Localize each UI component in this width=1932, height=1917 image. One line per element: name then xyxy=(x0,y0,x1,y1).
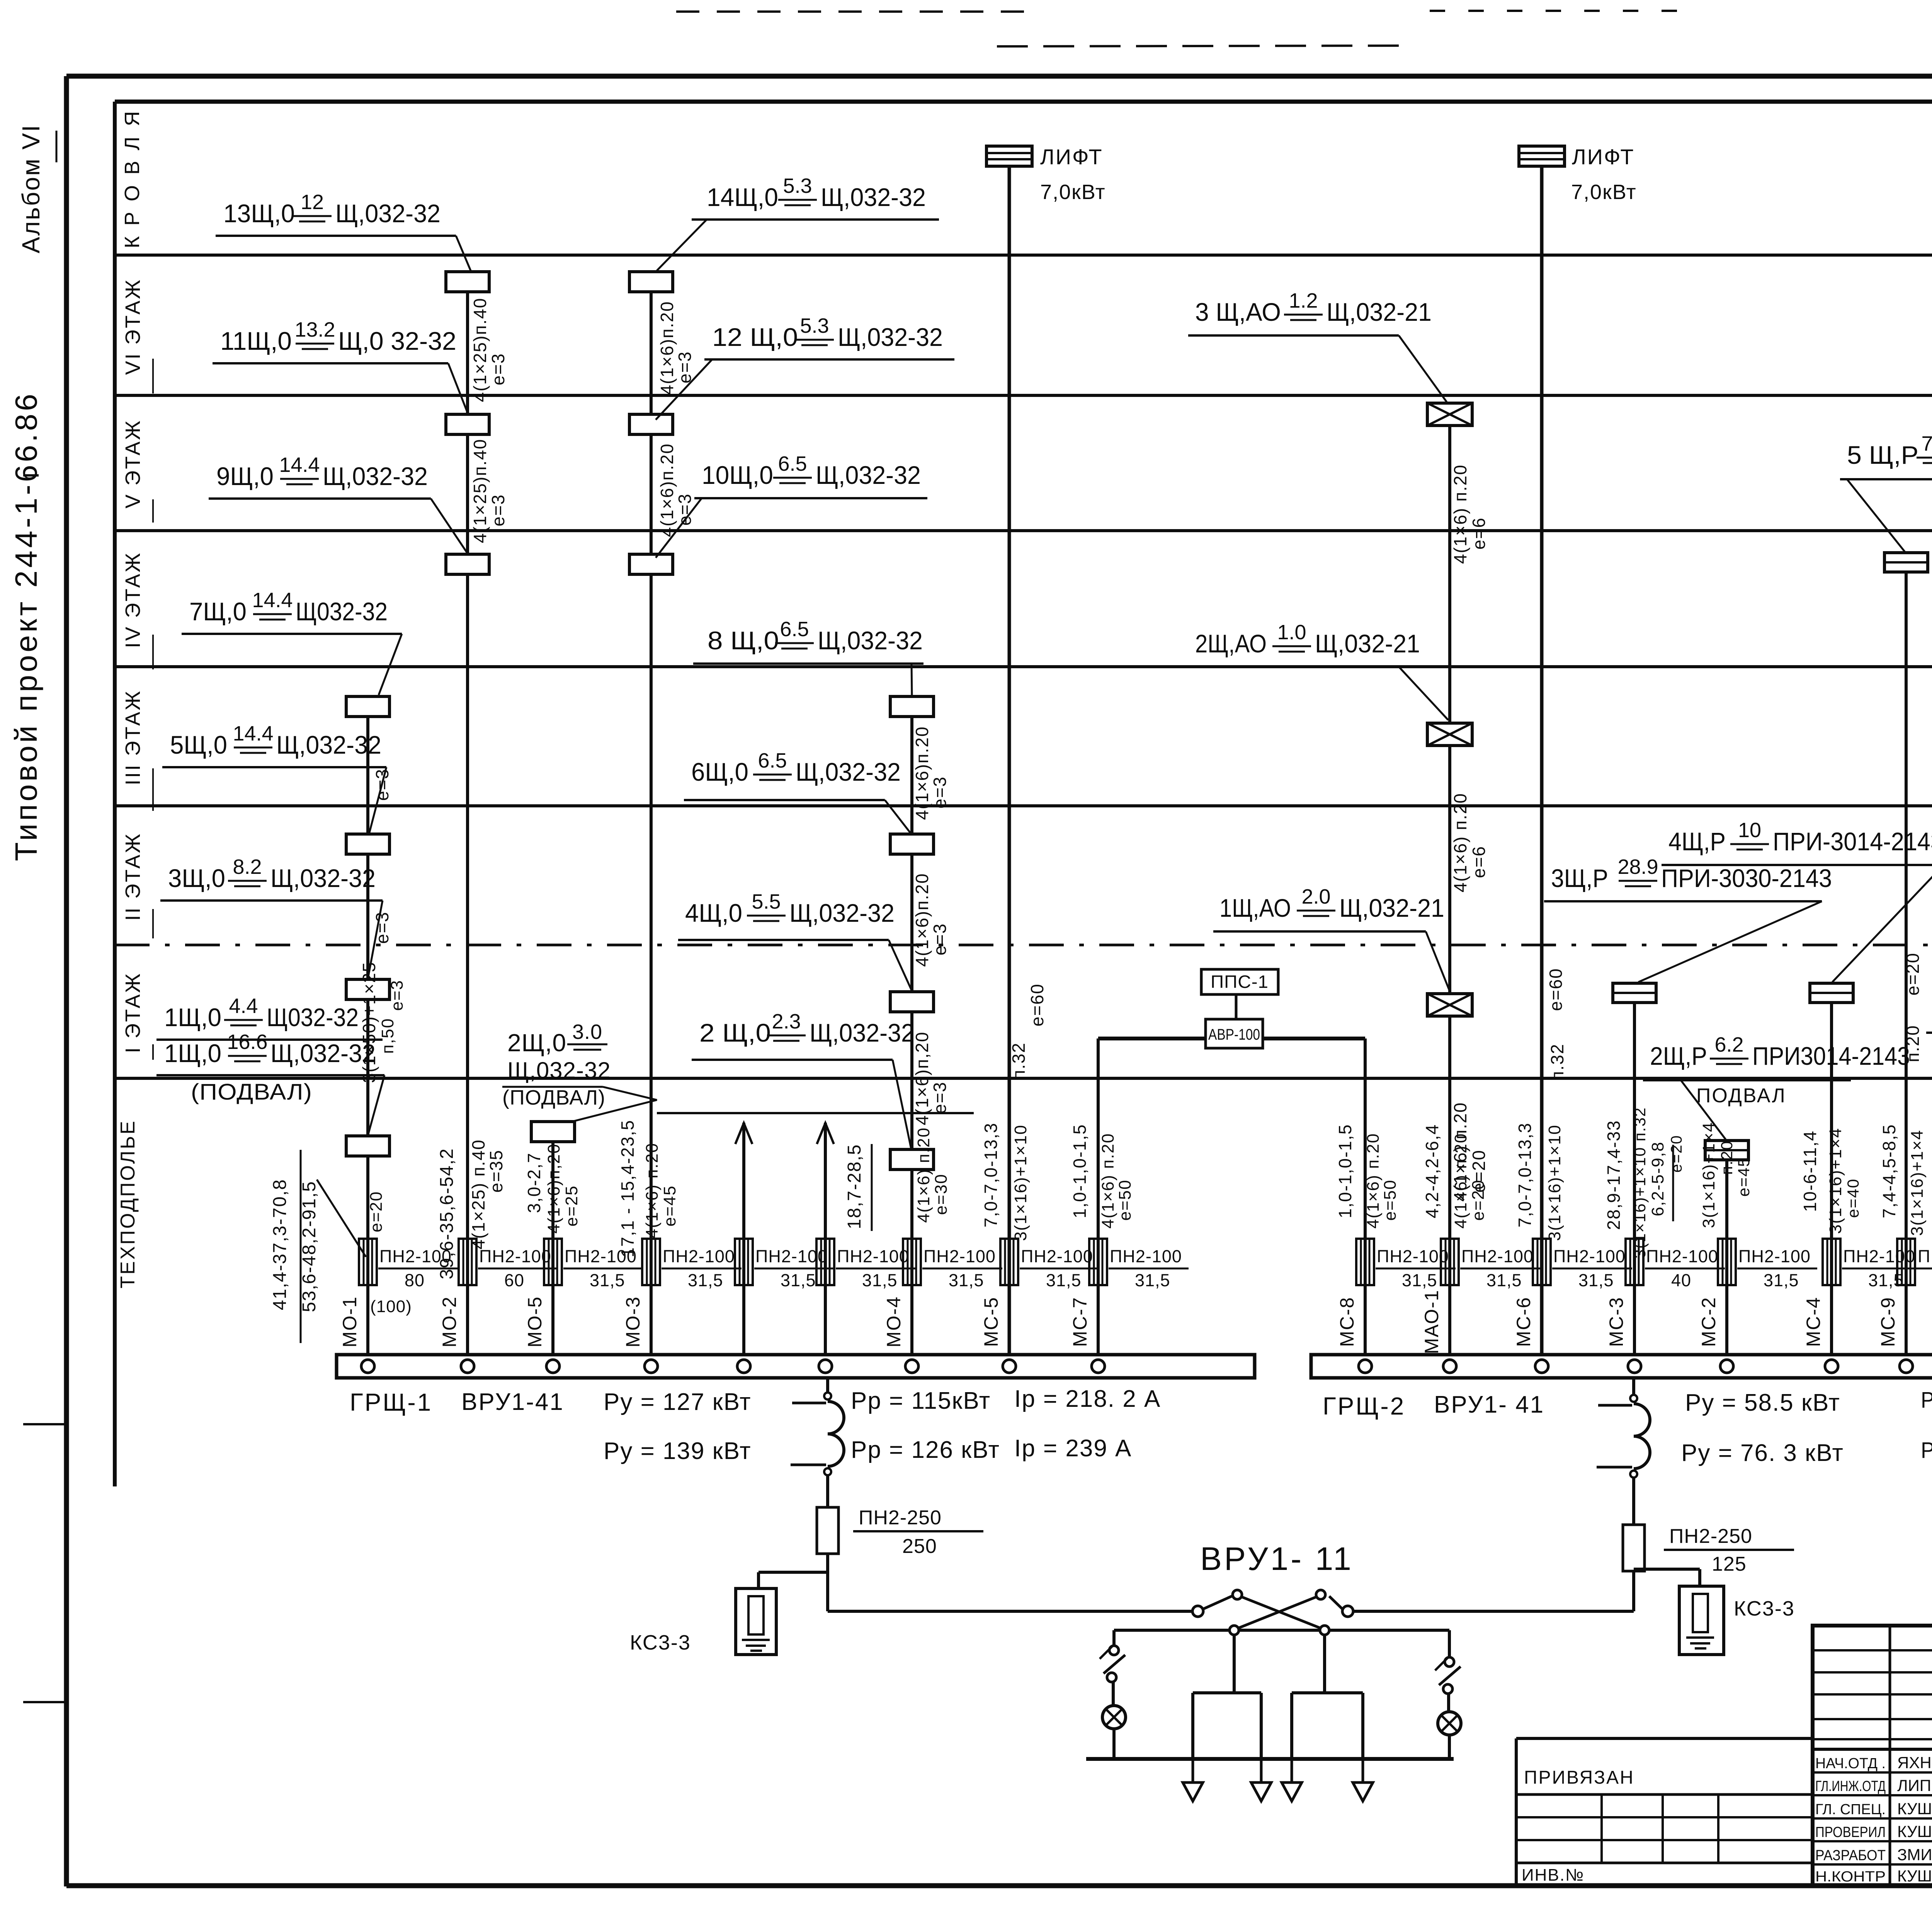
svg-text:ПН2-100: ПН2-100 xyxy=(663,1246,735,1266)
svg-text:Щ,032-32: Щ,032-32 xyxy=(789,899,895,927)
svg-text:Щ,032-32: Щ,032-32 xyxy=(323,462,428,490)
svg-text:ЛИФТ: ЛИФТ xyxy=(1040,145,1103,169)
svg-text:К Р О В Л Я: К Р О В Л Я xyxy=(121,109,144,249)
svg-text:4(1×6) п.20: 4(1×6) п.20 xyxy=(1364,1133,1383,1229)
svg-text:Щ,032-32: Щ,032-32 xyxy=(818,626,923,655)
svg-text:КУШНЕРЕВА: КУШНЕРЕВА xyxy=(1897,1800,1932,1818)
svg-text:1.0: 1.0 xyxy=(1277,621,1306,644)
svg-text:ПРИ-3030-2143: ПРИ-3030-2143 xyxy=(1661,864,1832,892)
svg-text:14.4: 14.4 xyxy=(233,722,273,745)
svg-text:14Щ,0: 14Щ,0 xyxy=(707,183,778,211)
svg-text:3(1×16)+1×4: 3(1×16)+1×4 xyxy=(1826,1127,1845,1234)
svg-text:7.4: 7.4 xyxy=(1921,432,1932,455)
svg-text:Типовой проект 244-1-66.86: Типовой проект 244-1-66.86 xyxy=(9,391,43,861)
svg-text:31,5: 31,5 xyxy=(1402,1270,1437,1290)
svg-text:ПН2-100: ПН2-100 xyxy=(1110,1246,1182,1266)
svg-text:ПРИВЯЗАН: ПРИВЯЗАН xyxy=(1524,1767,1634,1788)
svg-text:(100): (100) xyxy=(370,1297,412,1316)
svg-text:Щ,032-21: Щ,032-21 xyxy=(1339,894,1444,922)
svg-text:7,0-7,0-13,3: 7,0-7,0-13,3 xyxy=(981,1122,1001,1227)
svg-text:ЗМИЕНКО: ЗМИЕНКО xyxy=(1897,1845,1932,1864)
svg-text:п,50: п,50 xyxy=(378,1018,397,1054)
svg-text:ПН2-100: ПН2-100 xyxy=(379,1246,452,1266)
svg-text:2Щ,0: 2Щ,0 xyxy=(507,1029,566,1057)
svg-text:5.3: 5.3 xyxy=(783,174,812,197)
svg-text:ПН2-100: ПН2-100 xyxy=(1553,1246,1626,1266)
svg-text:ПН2-100: ПН2-100 xyxy=(479,1246,551,1266)
svg-text:ПРОВЕРИЛ: ПРОВЕРИЛ xyxy=(1815,1824,1886,1840)
svg-text:е=3: е=3 xyxy=(930,1081,950,1114)
svg-text:6Щ,0: 6Щ,0 xyxy=(691,758,748,786)
svg-text:8 Щ,0: 8 Щ,0 xyxy=(707,626,779,655)
svg-text:МС-3: МС-3 xyxy=(1605,1297,1627,1347)
svg-text:ВРУ1-41: ВРУ1-41 xyxy=(461,1389,564,1415)
svg-text:МАО-1: МАО-1 xyxy=(1421,1289,1442,1354)
svg-text:31,5: 31,5 xyxy=(781,1270,816,1290)
svg-text:МО-1: МО-1 xyxy=(339,1296,361,1348)
svg-text:31,5: 31,5 xyxy=(1135,1270,1170,1290)
svg-text:6.5: 6.5 xyxy=(780,618,809,641)
svg-text:IV ЭТАЖ: IV ЭТАЖ xyxy=(121,552,145,648)
svg-text:МО-3: МО-3 xyxy=(622,1296,644,1348)
svg-text:Щ,032-32: Щ,032-32 xyxy=(810,1018,915,1047)
svg-text:е=3: е=3 xyxy=(372,768,392,801)
svg-text:31,5: 31,5 xyxy=(590,1270,625,1290)
svg-text:ППС-1: ППС-1 xyxy=(1211,972,1269,992)
svg-text:ГЛ.ИНЖ.ОТД: ГЛ.ИНЖ.ОТД xyxy=(1815,1778,1886,1794)
svg-text:Щ,032-21: Щ,032-21 xyxy=(1315,629,1420,658)
svg-text:е=35: е=35 xyxy=(486,1149,506,1193)
svg-text:7,0-7,0-13,3: 7,0-7,0-13,3 xyxy=(1515,1122,1535,1227)
svg-text:е=3: е=3 xyxy=(930,776,950,809)
svg-text:3 Щ,АО: 3 Щ,АО xyxy=(1195,298,1281,326)
svg-text:Щ,032-32: Щ,032-32 xyxy=(821,183,926,211)
svg-text:3Щ,Р: 3Щ,Р xyxy=(1551,864,1608,892)
svg-text:3,0-2,7: 3,0-2,7 xyxy=(524,1152,544,1213)
svg-text:2.0: 2.0 xyxy=(1301,885,1330,908)
svg-text:I ЭТАЖ: I ЭТАЖ xyxy=(121,972,145,1053)
svg-text:16.6: 16.6 xyxy=(227,1030,267,1054)
svg-text:4(1×25)п.40: 4(1×25)п.40 xyxy=(470,298,490,402)
svg-text:31,5: 31,5 xyxy=(1764,1270,1799,1290)
svg-text:3(1×16)+1×10 п.32: 3(1×16)+1×10 п.32 xyxy=(1631,1107,1649,1258)
svg-text:4(1×6)п.20: 4(1×6)п.20 xyxy=(657,443,677,537)
svg-text:Ру = 139 кВт: Ру = 139 кВт xyxy=(604,1438,752,1464)
svg-text:ГРЩ-1: ГРЩ-1 xyxy=(350,1388,432,1416)
svg-text:10Щ,0: 10Щ,0 xyxy=(702,461,773,489)
svg-text:4(1×6) п.20: 4(1×6) п.20 xyxy=(1450,793,1470,892)
svg-text:Рр= 54. 4 кВт: Рр= 54. 4 кВт xyxy=(1921,1438,1932,1463)
svg-text:ПН2-100: ПН2-100 xyxy=(837,1246,909,1266)
svg-text:53,6-48,2-91,5: 53,6-48,2-91,5 xyxy=(299,1181,320,1312)
svg-text:2Щ,Р: 2Щ,Р xyxy=(1650,1042,1707,1070)
svg-text:е=3: е=3 xyxy=(930,923,950,955)
svg-text:Ру = 76. 3 кВт: Ру = 76. 3 кВт xyxy=(1681,1440,1844,1466)
svg-text:ПОДВАЛ: ПОДВАЛ xyxy=(1696,1084,1786,1107)
svg-text:7,0кВт: 7,0кВт xyxy=(1040,180,1106,204)
svg-text:ПН2-100: ПН2-100 xyxy=(1461,1246,1534,1266)
svg-text:3.0: 3.0 xyxy=(572,1020,602,1044)
svg-text:КУШНЕРЕВА: КУШНЕРЕВА xyxy=(1897,1822,1932,1840)
svg-text:4(1×6)п.20: 4(1×6)п.20 xyxy=(657,301,677,395)
svg-text:е=20: е=20 xyxy=(367,1191,386,1232)
svg-text:10: 10 xyxy=(1738,819,1761,842)
svg-text:е=3: е=3 xyxy=(675,351,695,383)
svg-text:4(1×6)п,20: 4(1×6)п,20 xyxy=(544,1143,563,1233)
svg-text:4(1×25)п.40: 4(1×25)п.40 xyxy=(470,439,490,543)
svg-text:Рр = 126 кВт: Рр = 126 кВт xyxy=(851,1437,1000,1463)
svg-text:ПН2-100: ПН2-100 xyxy=(1843,1246,1915,1266)
svg-text:3(1×16)+1×4: 3(1×16)+1×4 xyxy=(1908,1129,1927,1236)
svg-text:п.32: п.32 xyxy=(1547,1044,1567,1081)
svg-text:ВРУ1- 41: ВРУ1- 41 xyxy=(1434,1391,1544,1418)
svg-text:ПН2-100: ПН2-100 xyxy=(1646,1246,1718,1266)
svg-text:Щ,032-32: Щ,032-32 xyxy=(838,323,943,351)
svg-text:11Щ,0: 11Щ,0 xyxy=(220,327,292,355)
svg-text:1,0-1,0-1,5: 1,0-1,0-1,5 xyxy=(1070,1124,1090,1218)
svg-text:КУШНЕРЕВА: КУШНЕРЕВА xyxy=(1897,1867,1932,1885)
svg-text:4(1×6) п.20: 4(1×6) п.20 xyxy=(1099,1133,1117,1229)
svg-text:ТЕХПОДПОЛЬЕ: ТЕХПОДПОЛЬЕ xyxy=(117,1119,139,1288)
svg-text:2 Щ,0: 2 Щ,0 xyxy=(699,1018,771,1047)
svg-text:е=3: е=3 xyxy=(388,980,406,1011)
svg-text:3(1×50)+1×25: 3(1×50)+1×25 xyxy=(359,962,379,1083)
svg-text:Щ,032-32: Щ,032-32 xyxy=(796,758,901,786)
svg-text:МО-5: МО-5 xyxy=(524,1296,546,1348)
svg-text:е=3: е=3 xyxy=(488,353,508,385)
svg-text:6.5: 6.5 xyxy=(758,749,787,772)
svg-text:4,2-4,2-6,4: 4,2-4,2-6,4 xyxy=(1422,1124,1442,1218)
svg-text:6.5: 6.5 xyxy=(778,452,807,475)
svg-text:Iр = 218. 2 А: Iр = 218. 2 А xyxy=(1014,1386,1161,1412)
svg-text:13.2: 13.2 xyxy=(294,318,335,341)
svg-text:60: 60 xyxy=(504,1270,524,1290)
svg-text:е=45: е=45 xyxy=(1735,1157,1753,1197)
svg-text:1.2: 1.2 xyxy=(1289,289,1318,312)
svg-text:2Щ,АО: 2Щ,АО xyxy=(1195,629,1267,658)
svg-text:5 Щ,Р: 5 Щ,Р xyxy=(1847,441,1918,469)
svg-text:Ру = 127 кВт: Ру = 127 кВт xyxy=(604,1389,752,1415)
svg-text:4(1×6)п.20: 4(1×6)п.20 xyxy=(912,873,932,967)
svg-text:4Щ,0: 4Щ,0 xyxy=(685,899,742,927)
svg-text:5.3: 5.3 xyxy=(800,314,829,337)
svg-text:МС-4: МС-4 xyxy=(1803,1297,1824,1347)
svg-text:18,7-28,5: 18,7-28,5 xyxy=(844,1144,865,1229)
svg-text:4(1×6) п.20: 4(1×6) п.20 xyxy=(1450,464,1470,564)
svg-text:28.9: 28.9 xyxy=(1617,855,1658,878)
svg-text:МО-4: МО-4 xyxy=(883,1296,905,1348)
svg-text:е=20: е=20 xyxy=(1903,952,1923,996)
svg-text:е=20: е=20 xyxy=(1668,1135,1685,1173)
svg-text:17,1 - 15,4-23,5: 17,1 - 15,4-23,5 xyxy=(617,1120,638,1258)
svg-text:12: 12 xyxy=(301,191,324,214)
svg-text:Рр = 40.1кВт: Рр = 40.1кВт xyxy=(1921,1388,1932,1413)
svg-text:Рр = 115кВт: Рр = 115кВт xyxy=(851,1388,991,1414)
svg-text:Щ,032-32: Щ,032-32 xyxy=(335,199,440,228)
svg-text:п.20: п.20 xyxy=(1718,1140,1736,1175)
svg-text:Щ,0 32-32: Щ,0 32-32 xyxy=(338,327,456,355)
svg-text:4(1×6) п,20: 4(1×6) п,20 xyxy=(914,1127,933,1223)
svg-text:КС3-3: КС3-3 xyxy=(630,1631,691,1654)
svg-text:VI ЭТАЖ: VI ЭТАЖ xyxy=(121,278,145,375)
svg-text:ПН2-250: ПН2-250 xyxy=(859,1507,942,1529)
svg-text:4(1×6) п.20: 4(1×6) п.20 xyxy=(1451,1133,1470,1229)
svg-text:е=3: е=3 xyxy=(488,494,508,526)
svg-text:II ЭТАЖ: II ЭТАЖ xyxy=(121,833,145,921)
svg-text:41,4-37,3-70,8: 41,4-37,3-70,8 xyxy=(270,1179,290,1310)
svg-text:АВР-100: АВР-100 xyxy=(1208,1026,1260,1043)
svg-text:е=60: е=60 xyxy=(1546,968,1566,1011)
svg-text:80: 80 xyxy=(405,1270,425,1290)
svg-text:МС-8: МС-8 xyxy=(1336,1297,1358,1347)
svg-text:е=6: е=6 xyxy=(1469,846,1489,878)
svg-text:3(1×16)+1×10: 3(1×16)+1×10 xyxy=(1545,1124,1564,1241)
svg-text:Щ032-32: Щ032-32 xyxy=(296,597,388,626)
svg-text:3(1×16)+1×10: 3(1×16)+1×10 xyxy=(1011,1124,1030,1241)
svg-text:6.2: 6.2 xyxy=(1714,1033,1743,1056)
svg-text:ПН2-100: ПН2-100 xyxy=(1738,1246,1811,1266)
svg-text:3Щ,0: 3Щ,0 xyxy=(168,864,225,892)
svg-text:ПРИ3014-2143: ПРИ3014-2143 xyxy=(1752,1042,1910,1070)
svg-text:е=3: е=3 xyxy=(675,493,695,526)
svg-text:2.3: 2.3 xyxy=(772,1010,801,1033)
svg-text:ЛИПКИНД: ЛИПКИНД xyxy=(1897,1776,1932,1794)
svg-text:е=30: е=30 xyxy=(932,1173,951,1215)
svg-text:е=45: е=45 xyxy=(660,1185,679,1226)
svg-text:ИНВ.№: ИНВ.№ xyxy=(1522,1866,1584,1885)
svg-text:е=25: е=25 xyxy=(562,1185,581,1226)
svg-text:ПН2-100: ПН2-100 xyxy=(1021,1246,1093,1266)
svg-text:ГРЩ-2: ГРЩ-2 xyxy=(1323,1392,1405,1420)
svg-text:ЛИФТ: ЛИФТ xyxy=(1572,145,1635,169)
svg-text:(ПОДВАЛ): (ПОДВАЛ) xyxy=(502,1086,605,1109)
svg-text:250: 250 xyxy=(902,1535,937,1558)
svg-text:е=20: е=20 xyxy=(1469,1179,1488,1221)
svg-text:ПН2-100: ПН2-100 xyxy=(1377,1246,1449,1266)
svg-text:МС-7: МС-7 xyxy=(1069,1297,1091,1347)
svg-text:28,9-17,4-33: 28,9-17,4-33 xyxy=(1604,1120,1624,1230)
svg-text:Iр = 239 А: Iр = 239 А xyxy=(1014,1435,1132,1462)
svg-text:Щ,032-32: Щ,032-32 xyxy=(816,461,921,489)
svg-text:Альбом VI: Альбом VI xyxy=(17,124,45,254)
svg-text:1Щ,АО: 1Щ,АО xyxy=(1219,894,1291,922)
svg-text:МС-5: МС-5 xyxy=(980,1297,1002,1347)
svg-text:1,0-1,0-1,5: 1,0-1,0-1,5 xyxy=(1335,1124,1355,1218)
svg-text:4.4: 4.4 xyxy=(229,994,258,1018)
svg-text:6,2-5-9,8: 6,2-5-9,8 xyxy=(1648,1141,1667,1216)
svg-text:Н.КОНТР: Н.КОНТР xyxy=(1815,1869,1886,1885)
svg-text:е=50: е=50 xyxy=(1381,1179,1400,1221)
svg-text:ПН2-100: ПН2-100 xyxy=(1918,1246,1932,1266)
svg-text:МС-9: МС-9 xyxy=(1877,1297,1899,1347)
svg-text:ПН2-100: ПН2-100 xyxy=(565,1246,637,1266)
svg-text:9Щ,0: 9Щ,0 xyxy=(216,462,274,490)
svg-text:1Щ,0: 1Щ,0 xyxy=(164,1003,221,1032)
svg-text:Щ,032-32: Щ,032-32 xyxy=(507,1057,611,1083)
svg-text:1Щ,0: 1Щ,0 xyxy=(164,1039,221,1067)
svg-text:31,5: 31,5 xyxy=(949,1270,984,1290)
svg-text:4(1×25) п.40: 4(1×25) п.40 xyxy=(468,1139,488,1249)
svg-text:4Щ,Р: 4Щ,Р xyxy=(1668,827,1726,856)
svg-text:ГЛ. СПЕЦ.: ГЛ. СПЕЦ. xyxy=(1815,1801,1886,1818)
svg-text:Щ,032-21: Щ,032-21 xyxy=(1327,298,1432,326)
svg-text:14.4: 14.4 xyxy=(279,453,320,477)
svg-text:13Щ,0: 13Щ,0 xyxy=(223,199,295,228)
svg-text:Ру = 58.5 кВт: Ру = 58.5 кВт xyxy=(1685,1389,1840,1416)
svg-text:ПН2-250: ПН2-250 xyxy=(1669,1525,1752,1548)
svg-text:п.32: п.32 xyxy=(1009,1042,1029,1080)
svg-text:V ЭТАЖ: V ЭТАЖ xyxy=(121,419,145,509)
svg-text:ПРИ-3014-2143: ПРИ-3014-2143 xyxy=(1773,827,1932,856)
svg-text:31,5: 31,5 xyxy=(1486,1270,1522,1290)
svg-text:10-6-11,4: 10-6-11,4 xyxy=(1800,1130,1820,1212)
svg-text:4(1×6) п.20: 4(1×6) п.20 xyxy=(643,1142,662,1238)
svg-text:31,5: 31,5 xyxy=(688,1270,723,1290)
svg-text:Щ032-32: Щ032-32 xyxy=(267,1003,359,1032)
svg-text:5.5: 5.5 xyxy=(752,890,781,913)
svg-text:7Щ,0: 7Щ,0 xyxy=(189,597,247,626)
svg-text:Щ,032-32: Щ,032-32 xyxy=(276,730,381,759)
svg-text:31,5: 31,5 xyxy=(862,1270,898,1290)
svg-text:РАЗРАБОТ: РАЗРАБОТ xyxy=(1815,1847,1886,1864)
svg-text:31,5: 31,5 xyxy=(1046,1270,1082,1290)
svg-text:(ПОДВАЛ): (ПОДВАЛ) xyxy=(191,1079,312,1105)
svg-text:8.2: 8.2 xyxy=(233,855,262,878)
svg-text:НАЧ.ОТД .: НАЧ.ОТД . xyxy=(1815,1755,1886,1772)
svg-text:МС-2: МС-2 xyxy=(1698,1297,1719,1347)
svg-text:МО-2: МО-2 xyxy=(439,1296,460,1348)
svg-text:Щ,032-32: Щ,032-32 xyxy=(270,864,376,892)
svg-text:ПН2-100: ПН2-100 xyxy=(923,1246,996,1266)
svg-text:7,0кВт: 7,0кВт xyxy=(1571,180,1637,204)
svg-text:КС3-3: КС3-3 xyxy=(1734,1597,1795,1620)
svg-text:ВРУ1- 11: ВРУ1- 11 xyxy=(1200,1541,1354,1577)
svg-text:125: 125 xyxy=(1712,1553,1747,1575)
svg-text:е=50: е=50 xyxy=(1116,1179,1134,1221)
svg-text:е=3: е=3 xyxy=(372,911,392,944)
svg-text:ЯХНИС: ЯХНИС xyxy=(1897,1754,1932,1772)
svg-text:12 Щ,0: 12 Щ,0 xyxy=(712,323,798,351)
svg-text:4(1×6)п,20: 4(1×6)п,20 xyxy=(912,1031,932,1125)
svg-text:МС-6: МС-6 xyxy=(1513,1297,1534,1347)
svg-text:е=40: е=40 xyxy=(1844,1178,1862,1218)
svg-text:III ЭТАЖ: III ЭТАЖ xyxy=(121,690,145,785)
svg-text:е=60: е=60 xyxy=(1027,983,1047,1027)
svg-text:4(1×6)п.20: 4(1×6)п.20 xyxy=(912,726,932,820)
svg-text:14.4: 14.4 xyxy=(252,589,293,612)
svg-text:7,4-4,5-8,5: 7,4-4,5-8,5 xyxy=(1879,1124,1899,1218)
svg-text:40: 40 xyxy=(1671,1270,1691,1290)
svg-text:е=6: е=6 xyxy=(1469,517,1489,550)
svg-text:5Щ,0: 5Щ,0 xyxy=(170,730,227,759)
svg-text:3(1×16)+1×4: 3(1×16)+1×4 xyxy=(1699,1122,1718,1228)
svg-text:п.20: п.20 xyxy=(1903,1025,1923,1062)
svg-text:31,5: 31,5 xyxy=(1578,1270,1614,1290)
